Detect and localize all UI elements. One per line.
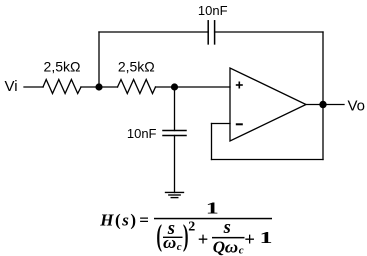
svg-text:1: 1 <box>260 228 273 247</box>
svg-text:(: ( <box>156 220 162 253</box>
node Vo junction dot <box>319 101 326 108</box>
formula inner frac 1 bar <box>163 237 183 238</box>
wire node A up <box>98 32 100 87</box>
svg-text:ω: ω <box>225 237 238 256</box>
formula main fraction bar <box>154 218 272 220</box>
svg-text:2,5kΩ: 2,5kΩ <box>44 59 81 75</box>
svg-text:ω: ω <box>163 233 176 252</box>
wire output <box>306 104 344 106</box>
wire R1 to R2 <box>81 86 118 88</box>
wire inverting input <box>212 123 231 125</box>
svg-text:2: 2 <box>188 220 195 235</box>
wire feedback bottom <box>212 159 324 161</box>
svg-text:c: c <box>177 241 182 253</box>
wire feedback left vertical <box>211 124 213 160</box>
formula H(s) <box>99 199 272 256</box>
svg-text:H(s): H(s) <box>99 210 137 229</box>
op-amp U1 <box>230 68 306 141</box>
svg-text:Vi: Vi <box>5 78 18 95</box>
wire top left <box>99 31 208 33</box>
wire R2 to opamp <box>156 86 231 88</box>
svg-text:c: c <box>239 245 244 256</box>
svg-text:=: = <box>139 210 149 229</box>
svg-text:1: 1 <box>206 199 219 218</box>
wire node B down <box>174 87 176 131</box>
ground <box>166 192 184 197</box>
wire right vertical <box>322 32 324 160</box>
svg-text:s: s <box>223 218 231 238</box>
svg-text:10nF: 10nF <box>198 3 228 18</box>
svg-text:10nF: 10nF <box>127 126 157 141</box>
resistor R2 2,5k <box>118 80 156 94</box>
resistor R1 2,5k <box>43 80 81 94</box>
wire top right <box>215 31 323 33</box>
plus symbol opamp <box>236 82 243 89</box>
svg-text:Q: Q <box>213 237 225 256</box>
svg-text:+: + <box>198 230 209 250</box>
node A junction dot <box>95 83 102 90</box>
svg-text:+: + <box>244 230 255 250</box>
capacitor C2 10nF <box>208 21 214 44</box>
svg-text:2,5kΩ: 2,5kΩ <box>118 59 155 75</box>
svg-text:Vo: Vo <box>348 98 366 115</box>
wire Vi to R1 <box>24 86 43 88</box>
formula inner frac 2 bar <box>212 237 245 239</box>
node B junction dot <box>171 83 178 90</box>
capacitor C1 10nF <box>163 131 186 136</box>
minus symbol opamp <box>236 123 243 125</box>
wire C1 to ground <box>174 136 176 193</box>
